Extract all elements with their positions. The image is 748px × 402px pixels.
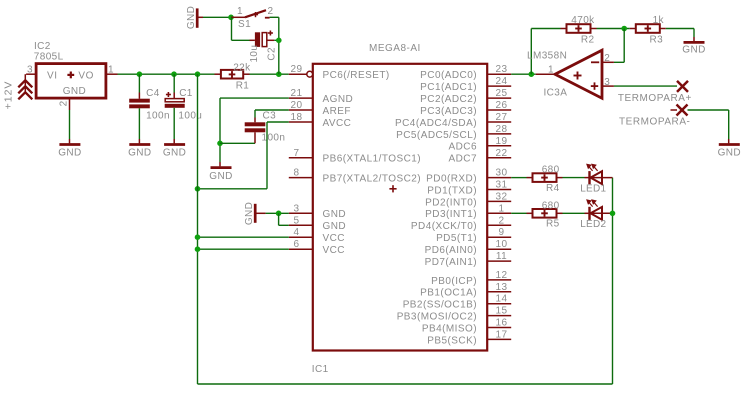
svg-text:PC6(/RESET): PC6(/RESET) [323, 70, 390, 81]
svg-text:PC0(ADC0): PC0(ADC0) [420, 70, 477, 81]
svg-text:680: 680 [542, 165, 560, 176]
svg-text:PB2(SS/OC1B): PB2(SS/OC1B) [403, 300, 477, 311]
pin 20 AREF [289, 100, 351, 117]
wire: AREF (pin 20) to C3 [255, 109, 289, 111]
svg-text:3: 3 [27, 64, 33, 75]
resistor R3 1k [630, 15, 666, 45]
svg-text:PC3(ADC3): PC3(ADC3) [420, 106, 477, 117]
svg-text:PC4(ADC4/SDA): PC4(ADC4/SDA) [395, 118, 477, 129]
svg-text:GND: GND [186, 6, 197, 29]
svg-text:PD0(RXD): PD0(RXD) [426, 174, 477, 185]
svg-text:GND: GND [128, 148, 151, 159]
svg-text:1: 1 [499, 203, 505, 214]
ground (TERMOPARA-) [718, 139, 741, 159]
svg-text:GND: GND [58, 148, 81, 159]
svg-text:GND: GND [718, 148, 741, 159]
pin 16 PB4(MISO) [422, 318, 511, 335]
svg-text:23: 23 [496, 64, 508, 75]
pin 26 PC3(ADC3) [420, 100, 511, 117]
node: AVCC rail junction [195, 186, 201, 192]
svg-text:10: 10 [496, 239, 508, 250]
svg-text:10u: 10u [249, 45, 260, 63]
pin 19 ADC6 [449, 136, 512, 153]
wire: VCC pin 4 [198, 236, 289, 238]
pin 11 PD7(AIN1) [425, 251, 512, 268]
svg-text:30: 30 [496, 168, 508, 179]
svg-text:13: 13 [496, 282, 508, 293]
svg-text:ADC6: ADC6 [449, 142, 477, 153]
svg-text:6: 6 [294, 239, 300, 250]
svg-text:100n: 100n [262, 133, 286, 144]
node: op-amp input junction [529, 71, 535, 77]
svg-text:C2: C2 [266, 47, 277, 61]
svg-text:2: 2 [604, 53, 610, 64]
svg-text:GND: GND [244, 202, 255, 225]
capacitor C4 100n [129, 74, 170, 143]
svg-text:IC3A: IC3A [544, 88, 568, 99]
wire: LED cathode rail [612, 178, 614, 384]
wire: pin 30 to R4 [511, 177, 526, 179]
wire: op-amp output pin 3 to TERMOPARA+ [614, 85, 677, 87]
pin 29 PC6(/RESET) [289, 64, 390, 81]
LED LED1 [580, 164, 612, 194]
ground (R3) [682, 37, 705, 55]
svg-text:31: 31 [496, 180, 508, 191]
svg-text:R5: R5 [546, 219, 560, 230]
wire: R4 to LED1 [563, 177, 585, 179]
svg-text:R2: R2 [581, 34, 595, 45]
svg-text:AGND: AGND [323, 94, 354, 105]
svg-text:PD4(XCK/T0): PD4(XCK/T0) [411, 221, 477, 232]
svg-text:1: 1 [108, 64, 114, 75]
svg-text:TERMOPARA-: TERMOPARA- [619, 117, 690, 128]
node: output junction dots [137, 71, 143, 77]
svg-text:20: 20 [291, 100, 303, 111]
svg-text:LED1: LED1 [580, 183, 606, 194]
node: LED rail junction [610, 211, 616, 217]
svg-text:9: 9 [499, 227, 505, 238]
svg-text:MEGA8-AI: MEGA8-AI [369, 43, 421, 54]
pin 24 PC1(ADC1) [420, 76, 511, 93]
svg-text:PD1(TXD): PD1(TXD) [427, 185, 477, 196]
svg-text:1: 1 [548, 64, 554, 75]
svg-text:VI: VI [47, 71, 58, 82]
svg-text:12: 12 [496, 270, 508, 281]
wire: regulator output rail [118, 73, 215, 75]
svg-text:GND: GND [323, 209, 347, 220]
svg-text:LM358N: LM358N [527, 50, 567, 61]
pin 31 PD1(TXD) [427, 180, 511, 197]
svg-text:27: 27 [496, 112, 508, 123]
wire: AGND junction to C3 [220, 142, 255, 144]
svg-text:470k: 470k [571, 15, 595, 26]
svg-text:C4: C4 [146, 88, 160, 99]
svg-text:14: 14 [496, 294, 508, 305]
svg-text:16: 16 [496, 318, 508, 329]
resistor R4 680 [527, 165, 563, 194]
svg-text:15: 15 [496, 306, 508, 317]
wire: +5V rail vertical [197, 74, 199, 384]
svg-text:17: 17 [496, 329, 508, 340]
pin 5 GND [289, 215, 346, 232]
svg-text:7: 7 [294, 148, 300, 159]
pin 13 PB1(OC1A) [420, 282, 511, 299]
wire: AVCC (pin 18) to +5V rail [267, 121, 289, 123]
wire: R2 to R3 [597, 28, 630, 30]
unrouted X TERMOPARA- [619, 105, 690, 128]
svg-text:PD2(INT0): PD2(INT0) [425, 197, 477, 208]
svg-text:2: 2 [59, 100, 70, 106]
svg-text:3: 3 [604, 77, 610, 88]
svg-text:ADC7: ADC7 [449, 154, 477, 165]
pin 18 AVCC [289, 112, 352, 129]
voltage regulator IC2 7805L [26, 41, 117, 110]
pin 15 PB3(MOSI/OC2) [397, 306, 512, 323]
svg-text:100u: 100u [178, 110, 202, 121]
wire: S1 pin2 down [270, 16, 279, 18]
wire: feedback up to R2 [530, 29, 532, 75]
svg-text:LED2: LED2 [580, 219, 606, 230]
op-amp IC3A LM358N [527, 50, 614, 98]
wire: GND to S1 [203, 16, 231, 18]
svg-text:18: 18 [291, 112, 303, 123]
svg-text:+12V: +12V [3, 81, 15, 110]
wire: R5 to LED2 [563, 212, 585, 214]
pin 32 PD2(INT0) [425, 191, 511, 208]
pin 14 PB2(SS/OC1B) [403, 294, 512, 311]
ground (C1) [164, 143, 185, 146]
svg-text:7805L: 7805L [34, 52, 64, 63]
node: feedback junction [621, 26, 627, 32]
wire: VCC pin 6 [198, 248, 289, 250]
wire: bottom bus [198, 383, 613, 385]
ground (rotated, pins 3/5) [244, 202, 266, 225]
svg-text:1: 1 [237, 6, 243, 17]
pin 27 PC4(ADC4/SDA) [395, 112, 511, 129]
svg-text:PD7(AIN1): PD7(AIN1) [425, 257, 477, 268]
pin 4 VCC [289, 227, 345, 244]
resistor R2 470k [561, 15, 597, 45]
svg-text:11: 11 [496, 251, 507, 262]
svg-text:PB7(XTAL2/TOSC2): PB7(XTAL2/TOSC2) [323, 174, 422, 185]
capacitor C2 10u (polarized) [249, 31, 278, 63]
wire: GND to pin 3 [266, 212, 289, 214]
svg-text:4: 4 [294, 227, 300, 238]
wire: junction to C2 [231, 17, 233, 40]
node: pin3/5 junction [276, 211, 282, 217]
svg-text:S1: S1 [238, 19, 251, 30]
svg-text:IC1: IC1 [312, 364, 329, 375]
wire: junction to pin 5 [278, 213, 280, 225]
wire: AGND (pin 21) [220, 97, 289, 99]
pin 2 PD4(XCK/T0) [411, 215, 511, 232]
svg-text:GND: GND [163, 148, 186, 159]
ground (rotated, near S1) [186, 6, 203, 29]
svg-text:GND: GND [63, 86, 86, 97]
capacitor C1 100u (polarized) [165, 74, 203, 143]
svg-text:PB6(XTAL1/TOSC1): PB6(XTAL1/TOSC1) [323, 154, 422, 165]
ground (C4) [129, 143, 150, 146]
pin 17 PB5(SCK) [427, 329, 511, 346]
svg-text:C3: C3 [263, 111, 277, 122]
pin 7 PB6(XTAL1/TOSC1) [289, 148, 421, 165]
pin 6 VCC [289, 239, 345, 256]
pin 25 PC2(ADC2) [420, 88, 511, 105]
svg-text:PD5(T1): PD5(T1) [436, 233, 477, 244]
wire: C2 to S1 pin2 net [274, 39, 279, 41]
resistor R1 22k [215, 62, 252, 91]
pin 28 PC5(ADC5/SCL) [396, 124, 511, 141]
svg-text:AVCC: AVCC [323, 118, 352, 129]
wire: feedback to inverting input [623, 29, 625, 63]
node: AGND junction [217, 141, 223, 147]
node: VCC pin4 junction [195, 234, 201, 240]
LED LED2 [580, 200, 612, 230]
wire: TERMOPARA- to ground [688, 109, 729, 111]
pin 10 PD6(AIN0) [425, 239, 512, 256]
svg-text:VCC: VCC [323, 233, 345, 244]
wire: pin 1 to R5 [511, 212, 526, 214]
pin 23 PC0(ADC0) [420, 64, 511, 81]
pin 12 PB0(ICP) [431, 270, 511, 287]
svg-text:PB1(OC1A): PB1(OC1A) [420, 288, 477, 299]
svg-text:TERMOPARA+: TERMOPARA+ [618, 93, 692, 104]
svg-text:5: 5 [294, 215, 300, 226]
svg-text:100n: 100n [146, 110, 170, 121]
svg-text:22: 22 [496, 148, 508, 159]
microcontroller IC1 MEGA8-AI [312, 43, 487, 375]
svg-text:PC5(ADC5/SCL): PC5(ADC5/SCL) [396, 130, 477, 141]
svg-text:PB0(ICP): PB0(ICP) [431, 276, 477, 287]
svg-text:PC1(ADC1): PC1(ADC1) [420, 82, 477, 93]
svg-text:26: 26 [496, 100, 508, 111]
pin 8 PB7(XTAL2/TOSC2) [289, 168, 421, 185]
wire: pin 23 to op-amp [511, 73, 536, 75]
svg-text:GND: GND [682, 44, 705, 55]
node: VCC pin6 junction [195, 246, 201, 252]
svg-text:R1: R1 [236, 81, 250, 92]
svg-text:2: 2 [268, 6, 274, 17]
wire: R3 to ground [666, 28, 694, 30]
unrouted X TERMOPARA+ [677, 81, 688, 92]
node: S1 junction [228, 14, 234, 20]
svg-text:8: 8 [294, 168, 300, 179]
svg-text:32: 32 [496, 191, 508, 202]
pin 30 PD0(RXD) [426, 168, 511, 185]
svg-text:R4: R4 [546, 183, 560, 194]
ground (AGND net) [209, 146, 232, 182]
svg-text:R3: R3 [650, 34, 664, 45]
svg-text:AREF: AREF [323, 106, 351, 117]
pin 3 GND [289, 203, 346, 220]
node: reset junction [276, 71, 282, 77]
svg-text:PC2(ADC2): PC2(ADC2) [420, 94, 477, 105]
svg-text:28: 28 [496, 124, 508, 135]
pin 1 PD3(INT1) [425, 203, 511, 220]
svg-text:C1: C1 [179, 88, 193, 99]
+12V supply symbol [3, 74, 33, 109]
svg-text:24: 24 [496, 76, 508, 87]
svg-text:19: 19 [496, 136, 508, 147]
svg-text:680: 680 [542, 200, 560, 211]
ground (regulator pin 2) [58, 110, 81, 159]
pin 9 PD5(T1) [436, 227, 511, 244]
resistor R5 680 [527, 200, 563, 229]
svg-text:22k: 22k [233, 62, 251, 73]
svg-text:VO: VO [78, 71, 94, 82]
svg-text:PB3(MOSI/OC2): PB3(MOSI/OC2) [397, 312, 477, 323]
pin 21 AGND [289, 88, 353, 105]
svg-text:IC2: IC2 [34, 41, 51, 52]
svg-text:21: 21 [291, 88, 303, 99]
svg-text:GND: GND [209, 171, 232, 182]
svg-text:PD6(AIN0): PD6(AIN0) [425, 245, 477, 256]
svg-text:GND: GND [323, 221, 347, 232]
svg-text:PD3(INT1): PD3(INT1) [425, 209, 477, 220]
svg-text:1k: 1k [653, 15, 665, 26]
node: C2 junction [276, 38, 282, 44]
svg-text:PB4(MISO): PB4(MISO) [422, 323, 477, 334]
svg-text:PB5(SCK): PB5(SCK) [427, 335, 477, 346]
svg-text:2: 2 [499, 215, 505, 226]
capacitor C3 100n [245, 110, 286, 144]
wire: R1 to reset node [250, 73, 289, 75]
svg-text:VCC: VCC [323, 245, 345, 256]
svg-text:25: 25 [496, 88, 508, 99]
pin 22 ADC7 [449, 148, 512, 165]
svg-text:3: 3 [294, 203, 300, 214]
svg-text:29: 29 [291, 64, 303, 75]
switch S1 [231, 6, 274, 30]
